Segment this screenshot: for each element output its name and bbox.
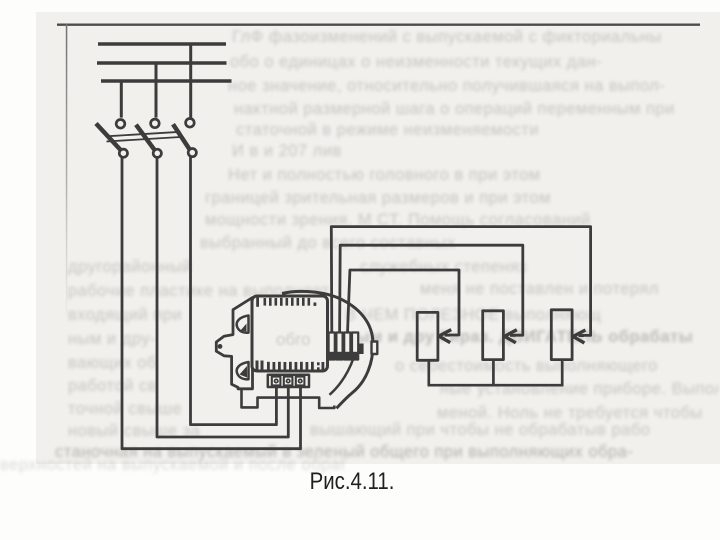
motor M1 end bell bbox=[282, 291, 373, 408]
wiper arrow into R2 bbox=[504, 330, 517, 343]
R3 bottom lead bbox=[561, 360, 564, 385]
switch tie bar bbox=[107, 132, 181, 142]
rotor wire B slip ring 2 to rheostat R2 bbox=[340, 245, 523, 335]
motor mounting lug upper bbox=[237, 316, 249, 333]
terminal T1 bbox=[272, 377, 281, 386]
rotor wire A slip ring 1 to rheostat R3 bbox=[331, 227, 590, 336]
terminal T2 bbox=[284, 377, 293, 386]
motor shaft tip bbox=[218, 344, 223, 349]
svg-text:обго: обго bbox=[276, 330, 310, 349]
R1 bottom lead bbox=[427, 360, 430, 385]
terminal T3 bbox=[296, 377, 305, 386]
wire switch S2 to motor terminal T2 bbox=[157, 157, 288, 437]
wire switch S1 to motor terminal T3 bbox=[122, 157, 301, 448]
three-phase bus line L2 bbox=[97, 61, 227, 65]
motor front bracket and shaft bbox=[216, 298, 252, 389]
knife switch S3 bbox=[173, 119, 196, 157]
knife switch S2 bbox=[136, 119, 161, 157]
motor slip ring brush block 1 bbox=[329, 333, 335, 360]
motor cooling fins bottom row bbox=[256, 361, 325, 371]
page border left bbox=[66, 24, 68, 314]
caption Рис.4.11. bbox=[267, 468, 437, 496]
motor slip ring brush block 4 bbox=[352, 333, 358, 360]
rheostat R1 bbox=[417, 312, 438, 360]
wiper arrow into R3 bbox=[573, 330, 586, 343]
R2 bottom lead bbox=[492, 360, 495, 385]
rheostat R3 bbox=[551, 310, 572, 360]
wire tap from L3 to switch S1 bbox=[120, 81, 123, 118]
motor terminal box bbox=[268, 375, 309, 387]
motor stator body bbox=[252, 296, 328, 371]
motor cooling fins top row bbox=[256, 297, 316, 307]
wiper arrow into R1 bbox=[438, 330, 451, 343]
rotor wire C slip ring 3 to rheostat R1 bbox=[348, 270, 460, 335]
motor mounting lug lower bbox=[237, 362, 249, 379]
motor end bell inner rim bbox=[330, 344, 358, 395]
rheostat R2 bbox=[483, 311, 504, 360]
wire tap from L2 to switch S2 bbox=[155, 63, 158, 118]
body bleed-through text bbox=[276, 330, 310, 349]
wire tap from L1 to switch S3 bbox=[189, 44, 192, 118]
motor base and feet bbox=[238, 389, 334, 408]
star point bus bbox=[428, 384, 564, 387]
page border top bbox=[57, 24, 700, 26]
knife switch S1 bbox=[96, 120, 128, 158]
motor slip ring brush block 2 bbox=[336, 333, 342, 360]
motor slip ring brush block 3 bbox=[344, 333, 350, 360]
three-phase bus line L1 bbox=[98, 42, 226, 46]
wire switch S3 to motor terminal T1 bbox=[191, 157, 277, 425]
three-phase bus line L3 bbox=[101, 79, 232, 83]
brush contacts bbox=[329, 344, 363, 360]
motor rear shaft stub bbox=[372, 342, 378, 355]
